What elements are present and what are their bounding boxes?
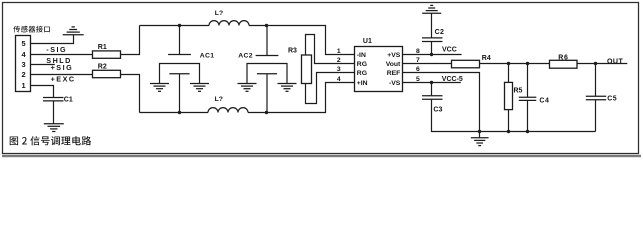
wire -VS pin5 VCC-5 stub	[403, 82, 461, 84]
svg-text:C5: C5	[607, 95, 617, 102]
svg-text:2: 2	[337, 57, 341, 64]
wire REF pin6 to ground rail	[403, 73, 480, 132]
ground AC1 right	[190, 84, 209, 92]
svg-text:Vout: Vout	[386, 61, 401, 68]
label AC2	[238, 53, 253, 60]
capacitor C2	[422, 38, 443, 42]
svg-text:3: 3	[337, 66, 341, 73]
svg-text:C4: C4	[539, 97, 549, 104]
junction +VS / C2	[430, 53, 433, 56]
wire RG pin2 to R3 top	[306, 35, 355, 64]
svg-text:1: 1	[337, 48, 341, 55]
wire AC AC2 top tap	[266, 26, 268, 56]
capacitor C1	[43, 98, 64, 101]
wire C4 upper lead	[527, 64, 529, 98]
wire C2 upper lead	[431, 13, 433, 38]
net label VCC-5	[442, 76, 463, 83]
wire AC2 bottom tap	[266, 74, 268, 113]
wire pin2 to R2	[31, 74, 93, 76]
junction ground rail / R5	[507, 130, 510, 133]
connector pin number 3	[22, 60, 26, 69]
svg-text:-IN: -IN	[357, 52, 366, 59]
resistor R2	[93, 70, 121, 77]
U1 pin label -VS	[389, 80, 401, 87]
ground AC2 right	[278, 84, 297, 92]
svg-text:-VS: -VS	[389, 80, 401, 87]
U1 pin number 2	[337, 57, 341, 64]
label R5	[514, 87, 523, 94]
connector pin number 4	[22, 50, 27, 59]
wire AC1 bottom tap	[179, 74, 181, 113]
label R6	[558, 54, 569, 61]
wire C5 upper lead	[595, 64, 597, 97]
label R2	[98, 63, 107, 70]
svg-text:+VS: +VS	[387, 52, 401, 59]
caption 图 2 信号调理电路	[10, 136, 91, 145]
net label VCC	[442, 47, 457, 54]
svg-text:+IN: +IN	[357, 80, 368, 87]
U1 pin number 1	[337, 48, 341, 55]
AC1 grounded electrode	[160, 64, 200, 84]
svg-text:C3: C3	[433, 106, 442, 113]
svg-text:R3: R3	[288, 48, 297, 55]
wire top rail left segment	[140, 25, 210, 27]
label L? (bottom)	[215, 96, 223, 103]
svg-text:L?: L?	[215, 96, 223, 103]
wire C1 to ground	[53, 101, 55, 124]
ground (output network)	[471, 138, 489, 146]
svg-text:AC1: AC1	[200, 53, 215, 60]
connector pin number 2	[22, 70, 26, 79]
wire R5 lower lead	[508, 110, 510, 132]
svg-text:-SIG: -SIG	[46, 45, 67, 54]
connector J1 body	[16, 36, 31, 92]
U1 pin number 5	[416, 76, 420, 83]
svg-text:AC2: AC2	[238, 53, 253, 60]
label C3	[433, 106, 442, 113]
junction Vout / C5	[594, 62, 597, 65]
U1 pin number 7	[416, 57, 420, 64]
U1 pin number 3	[337, 66, 341, 73]
label U1	[363, 38, 372, 45]
svg-text:C1: C1	[64, 97, 73, 104]
AC2 grounded electrode	[247, 64, 287, 84]
ground shield (inverted)	[63, 27, 84, 35]
U1 pin number 4	[337, 76, 341, 83]
net label SHLD	[46, 56, 72, 65]
U1 pin number 6	[416, 66, 420, 73]
inductor L? (bottom)	[208, 108, 248, 113]
U1 pin label -IN	[357, 52, 366, 59]
label R4	[482, 55, 491, 62]
label C1	[64, 97, 73, 104]
connector title 传感器接口	[13, 26, 50, 33]
svg-text:L?: L?	[215, 10, 223, 17]
junction bottom rail AC2	[265, 111, 268, 114]
wire pin5 to shield ground	[31, 35, 74, 44]
svg-text:RG: RG	[357, 61, 367, 68]
junction top rail AC1	[178, 24, 181, 27]
U1 pin label RG	[357, 70, 367, 77]
capacitor C4	[519, 97, 537, 100]
wire C5 lower lead	[595, 100, 597, 132]
label C2	[435, 29, 445, 36]
svg-text:+SIG: +SIG	[51, 63, 74, 72]
IC U1 body	[355, 47, 403, 92]
svg-text:R6: R6	[558, 54, 569, 61]
wire R1 to top rail	[121, 26, 140, 55]
resistor R3	[302, 55, 312, 84]
wire R2 to bottom rail	[121, 75, 140, 113]
svg-text:5: 5	[22, 39, 26, 48]
svg-text:REF: REF	[387, 70, 401, 77]
wire C3 to ground rail	[432, 99, 596, 131]
label R1	[98, 44, 107, 51]
label C4	[539, 97, 549, 104]
svg-text:OUT: OUT	[607, 57, 623, 65]
svg-text:VCC: VCC	[442, 47, 457, 54]
wire pin3 stub	[31, 64, 55, 66]
wire ground stub	[479, 132, 481, 138]
resistor R5	[505, 82, 513, 109]
ground AC2 left	[238, 84, 257, 92]
ground AC1 left	[150, 84, 169, 92]
connector pin number 1	[22, 81, 26, 90]
wire top rail right segment to U1 pin1	[249, 26, 355, 55]
junction top rail AC2	[265, 24, 268, 27]
svg-text:R1: R1	[98, 44, 107, 51]
wire pin4 to R1	[31, 54, 93, 56]
wire RG pin3 to R3 bottom	[306, 73, 355, 104]
svg-text:+EXC: +EXC	[51, 75, 76, 84]
wire C4 lower lead	[527, 100, 529, 131]
label R3	[288, 48, 297, 55]
wire C2 lower lead	[431, 42, 433, 55]
junction -VS / C3	[430, 81, 433, 84]
svg-text:2: 2	[22, 70, 26, 79]
svg-text:VCC-5: VCC-5	[442, 76, 463, 83]
U1 pin label Vout	[386, 61, 401, 68]
svg-text:4: 4	[337, 76, 341, 83]
net label -SIG	[46, 45, 67, 54]
wire AC AC1 top tap	[179, 26, 181, 55]
svg-text:1: 1	[22, 81, 26, 90]
capacitor AC1 lower plate	[169, 73, 189, 75]
svg-text:R4: R4	[482, 55, 491, 62]
U1 pin label RG	[357, 61, 367, 68]
wire bottom rail left segment	[140, 112, 209, 114]
label AC1	[200, 53, 215, 60]
svg-text:C2: C2	[435, 29, 445, 36]
junction ground rail / REF	[478, 130, 481, 133]
capacitor C3	[422, 96, 443, 100]
capacitor AC2 upper plate	[256, 55, 279, 57]
U1 pin number 8	[416, 48, 420, 55]
svg-text:3: 3	[22, 60, 26, 69]
resistor R1	[93, 51, 121, 58]
net label +SIG	[51, 63, 74, 72]
connector pin number 5	[22, 39, 26, 48]
inductor L? (top)	[209, 21, 249, 26]
label L? (top)	[215, 10, 223, 17]
U1 pin label +IN	[357, 80, 368, 87]
svg-text:U1: U1	[363, 38, 372, 45]
wire +VS pin8 VCC stub	[403, 54, 462, 56]
capacitor C5	[586, 96, 606, 100]
svg-text:RG: RG	[357, 70, 367, 77]
wire Vout pin7 to OUT	[403, 63, 628, 65]
ground C1	[44, 124, 64, 132]
svg-text:R5: R5	[514, 87, 523, 94]
junction bottom rail AC1	[178, 111, 181, 114]
wire bottom rail right segment to U1 pin4	[248, 83, 355, 113]
svg-text:R2: R2	[98, 63, 107, 70]
resistor R4	[452, 60, 480, 68]
wire pin1 to C1	[31, 86, 54, 98]
junction Vout / C4	[526, 62, 529, 65]
wire C3 upper lead	[431, 83, 433, 96]
capacitor AC2 lower plate	[257, 73, 277, 75]
label C5	[607, 95, 617, 102]
ground C2 (inverted)	[422, 5, 441, 13]
resistor R6	[550, 60, 578, 68]
wire R5 upper lead	[508, 64, 510, 83]
capacitor AC1 upper plate	[168, 54, 191, 56]
net label +EXC	[51, 75, 76, 84]
U1 pin label REF	[387, 70, 401, 77]
junction ground rail / C4	[526, 130, 529, 133]
U1 pin label +VS	[387, 52, 401, 59]
net label OUT	[607, 57, 623, 65]
junction Vout / R5	[507, 62, 510, 65]
